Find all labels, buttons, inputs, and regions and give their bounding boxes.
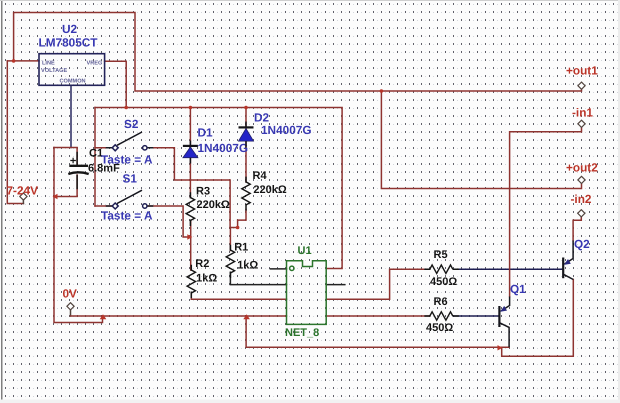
svg-text:R1: R1 — [234, 242, 248, 254]
junction dot at D2 top — [244, 106, 248, 110]
svg-text:7-24V: 7-24V — [7, 184, 39, 198]
svg-text:-in2: -in2 — [571, 192, 592, 206]
junction dot at VREG / y107 — [124, 106, 128, 110]
resistor R6 — [430, 312, 453, 320]
svg-text:S2: S2 — [124, 117, 139, 131]
wire left rail 7-24V — [7, 61, 23, 204]
wire -in2 to Q2 collector — [573, 217, 581, 241]
wire y107 rail to U1 pin — [95, 108, 342, 269]
wire R6 to Q1 base — [454, 315, 500, 317]
junction arrow at 0V rail x102 — [100, 314, 107, 319]
svg-text:LM7805CT: LM7805CT — [39, 36, 99, 50]
switch S2 lead stubs (black) — [107, 147, 153, 149]
wire emitter branch down right to Q2 emitter — [502, 280, 574, 357]
wire R5 to Q2 base — [454, 268, 564, 270]
wire C1 bottom — [54, 175, 77, 197]
svg-text:U2: U2 — [62, 22, 78, 36]
wire R1 junction horiz — [230, 227, 238, 229]
wire U1 right pin4 to R6 — [326, 315, 430, 317]
svg-text:450Ω: 450Ω — [426, 322, 453, 334]
svg-text:Taste = A: Taste = A — [101, 209, 153, 223]
wire S2 left branch — [95, 147, 112, 149]
wire R1 column — [229, 228, 231, 251]
wire C1 top tee — [54, 148, 77, 165]
transistor Q1 — [499, 297, 509, 348]
svg-text:R3: R3 — [196, 186, 210, 198]
svg-text:R5: R5 — [434, 249, 448, 261]
svg-text:+out1: +out1 — [566, 64, 598, 78]
junction dot at D1 top — [189, 106, 193, 110]
U1 left pin1 stub — [270, 268, 286, 270]
wire D2 column — [245, 108, 247, 182]
wire +out2 branch — [381, 91, 581, 189]
svg-text:1N4007G: 1N4007G — [261, 123, 312, 137]
resistor R5 — [430, 265, 453, 273]
svg-text:U1: U1 — [298, 245, 312, 257]
R4 lead stubs — [245, 177, 247, 210]
connector 0V — [67, 303, 74, 310]
svg-text:VOLTAGE: VOLTAGE — [41, 68, 67, 74]
switch S1 — [112, 190, 147, 209]
wire S1 right to R3 bottom junction — [147, 206, 189, 237]
wire U2 COMMON down — [70, 85, 72, 147]
wire R3-R2 column — [190, 221, 192, 271]
IC U1 — [287, 261, 327, 325]
svg-text:LINE: LINE — [42, 61, 55, 67]
svg-text:220kΩ: 220kΩ — [197, 199, 230, 211]
svg-text:+out2: +out2 — [566, 161, 598, 175]
transistor Q2 — [563, 241, 573, 280]
svg-text:NET_8: NET_8 — [285, 327, 319, 339]
svg-text:1N4007G: 1N4007G — [198, 141, 249, 155]
wire S1 left branch — [95, 205, 112, 207]
wire D1 column — [189, 108, 191, 198]
svg-text:R2: R2 — [195, 258, 209, 270]
svg-text:D1: D1 — [198, 126, 214, 140]
diode D1 — [183, 141, 198, 164]
connector -in1 — [578, 120, 585, 127]
wire U2 VREG pin to y107 rail — [105, 61, 127, 107]
U2 regulator box — [39, 54, 105, 86]
svg-text:1kΩ: 1kΩ — [196, 273, 217, 285]
svg-text:450Ω: 450Ω — [430, 276, 457, 288]
resistor R4 — [242, 182, 250, 205]
junction dot at U2 LINE / left rail — [12, 59, 16, 63]
resistor R3 — [186, 198, 194, 221]
junction arrow at 0V drop x245.6 — [243, 314, 250, 319]
wire C1 branch down — [54, 148, 103, 323]
svg-text:R6: R6 — [434, 296, 448, 308]
wire 0V drop to Q1 emitter line — [246, 316, 509, 347]
wire R4 bottom step — [238, 210, 246, 228]
R6 lead stubs — [425, 315, 458, 317]
svg-text:0V: 0V — [63, 287, 78, 301]
switch S2 — [112, 132, 147, 151]
U1 right pin2 stub — [326, 284, 345, 286]
R3 lead stubs — [189, 193, 191, 225]
capacitor C1 lead stubs (black) — [76, 153, 78, 189]
resistor R2 — [187, 270, 195, 293]
capacitor C1 — [68, 158, 88, 174]
wire U1 right pin3 up to R5 — [326, 269, 430, 299]
svg-text:VREG: VREG — [87, 61, 103, 67]
svg-text:Q1: Q1 — [510, 282, 526, 296]
connector +out2 — [578, 176, 585, 183]
wire R1 bottom to U1 pin2 — [230, 273, 286, 285]
junction dot at R4/R1 — [236, 226, 240, 230]
svg-text:-in1: -in1 — [572, 106, 593, 120]
R5 lead stubs — [425, 268, 458, 270]
svg-text:Q2: Q2 — [574, 237, 590, 251]
connector 7-24V — [20, 193, 27, 200]
diode D2 — [239, 122, 254, 148]
resistor R1 — [226, 250, 234, 273]
svg-text:R4: R4 — [253, 170, 268, 182]
svg-text:220kΩ: 220kΩ — [253, 184, 286, 196]
switch S1 lead stubs (black) — [107, 205, 153, 207]
wire -in1 to Q1 collector — [510, 127, 582, 296]
wire 0V stem — [70, 310, 72, 316]
svg-text:1kΩ: 1kΩ — [237, 260, 258, 272]
wire 7-24V stem — [22, 200, 24, 203]
junction arrow at Q1 emitter — [498, 345, 503, 350]
window frame edges — [1, 0, 3, 403]
junction arrow at R3 bottom — [187, 234, 192, 239]
connector -in2 — [578, 210, 585, 217]
svg-text:Taste = A: Taste = A — [101, 153, 153, 167]
wire x94.5 rail — [94, 108, 96, 207]
wire top loop from left rail to +out1 — [14, 13, 582, 92]
wire U2 LINE pin — [7, 60, 39, 62]
wire S2 right to R1 top — [147, 148, 230, 228]
junction dot at +out2 branch — [380, 89, 384, 93]
R2 lead stubs — [190, 266, 192, 298]
svg-text:COMMON: COMMON — [60, 79, 86, 85]
R1 lead stubs — [229, 246, 231, 278]
wire 0V rail to U1 pin4 — [71, 315, 287, 317]
wire R2 bottom to U1 pin3 — [191, 293, 286, 300]
connector +out1 — [578, 82, 585, 89]
svg-text:S1: S1 — [123, 172, 138, 186]
junction arrow at C1 bottom — [53, 194, 58, 199]
